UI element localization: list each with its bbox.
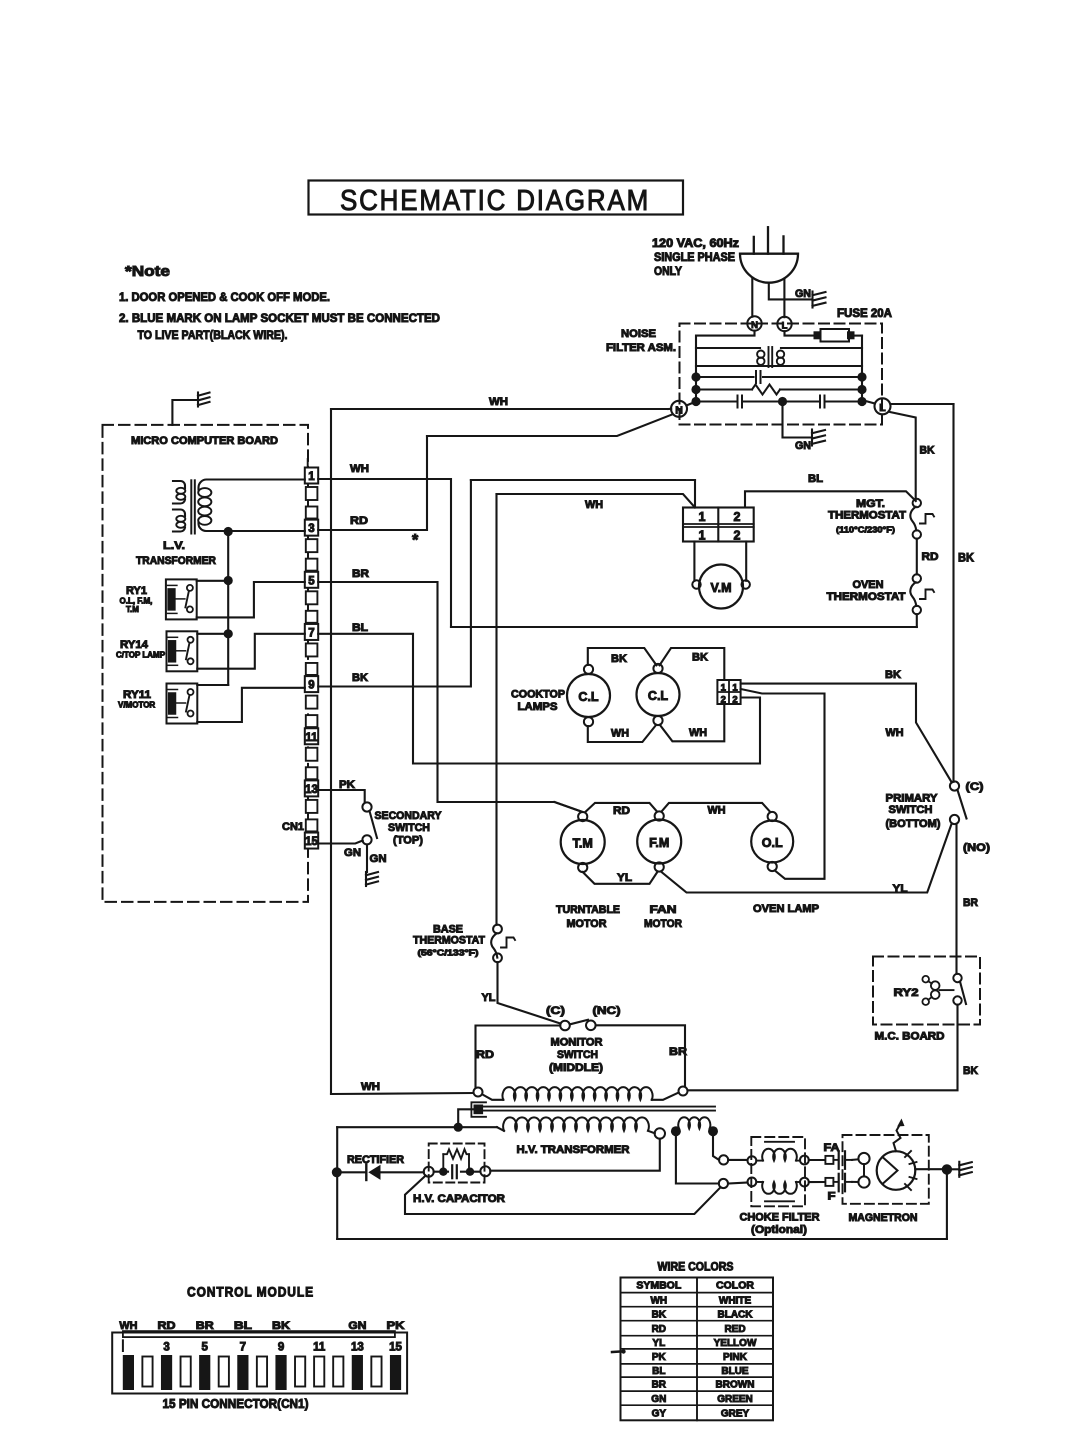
svg-text:1: 1 <box>699 510 706 524</box>
svg-text:BR: BR <box>963 897 978 909</box>
svg-text:15 PIN CONNECTOR(CN1): 15 PIN CONNECTOR(CN1) <box>163 1397 309 1411</box>
choke coil top <box>756 1160 763 1162</box>
svg-text:3: 3 <box>163 1342 169 1354</box>
HV transformer core <box>483 1106 715 1108</box>
wire L to BK drop <box>889 412 916 500</box>
svg-text:THERMOSTAT: THERMOSTAT <box>413 935 485 947</box>
svg-text:FA: FA <box>824 1142 840 1154</box>
svg-text:(NO): (NO) <box>963 842 990 854</box>
terminal L top <box>777 317 791 331</box>
HV transformer filament <box>671 1126 681 1136</box>
wire filament left to F <box>676 1136 719 1184</box>
svg-text:2: 2 <box>734 529 741 543</box>
monitor switch blade <box>571 1020 589 1024</box>
left return box <box>336 1127 338 1239</box>
svg-text:RY14: RY14 <box>120 639 149 651</box>
motor F.M <box>637 820 681 864</box>
svg-text:1: 1 <box>308 471 315 483</box>
feedthrough capacitor F <box>833 1181 837 1183</box>
wire WH pin1 long <box>451 626 917 628</box>
wire WH to base thermostat <box>495 494 497 925</box>
choke filter right bottom terminal <box>800 1178 809 1187</box>
wire FM-OL top <box>662 803 771 812</box>
wire YL FM to primary switch <box>662 824 952 893</box>
svg-text:WH: WH <box>361 1081 380 1093</box>
svg-text:9: 9 <box>308 680 314 692</box>
svg-text:T.M: T.M <box>573 837 593 851</box>
svg-text:MOTOR: MOTOR <box>644 918 682 930</box>
svg-text:PRIMARY: PRIMARY <box>886 793 939 805</box>
svg-text:FILTER ASM.: FILTER ASM. <box>606 342 676 354</box>
wire BK block to primary switch <box>741 684 952 783</box>
wire BK lamps top <box>588 648 657 665</box>
svg-text:1: 1 <box>699 529 706 543</box>
svg-text:BK: BK <box>652 1309 667 1320</box>
svg-text:WHITE: WHITE <box>719 1295 752 1306</box>
svg-text:1: 1 <box>721 683 727 694</box>
choke filter left top terminal <box>748 1156 757 1165</box>
svg-text:PK: PK <box>652 1352 667 1363</box>
wire to chassis <box>952 1168 959 1170</box>
svg-text:(56°C/133°F): (56°C/133°F) <box>418 948 479 958</box>
svg-text:F.M: F.M <box>649 836 669 850</box>
ground magnetron <box>958 1162 960 1177</box>
relay RY2 contacts <box>953 974 961 982</box>
svg-text:GN: GN <box>344 847 361 859</box>
svg-text:RY11: RY11 <box>123 689 151 701</box>
svg-text:YL: YL <box>482 992 496 1004</box>
svg-text:TO LIVE PART(BLACK WIRE).: TO LIVE PART(BLACK WIRE). <box>138 328 288 342</box>
node T1 bottom junction <box>224 527 233 536</box>
primary switch NO contact <box>950 815 959 824</box>
terminal N top <box>747 316 761 330</box>
choke core <box>768 347 770 367</box>
svg-text:GN: GN <box>795 288 811 300</box>
svg-text:BLUE: BLUE <box>721 1366 749 1377</box>
svg-text:BR: BR <box>352 568 369 580</box>
svg-text:*Note: *Note <box>125 264 170 280</box>
svg-text:15: 15 <box>389 1342 402 1354</box>
terminal L bottom <box>875 398 891 414</box>
svg-text:BK: BK <box>963 1065 978 1077</box>
svg-text:C.L: C.L <box>578 690 599 704</box>
svg-text:RD: RD <box>350 515 368 527</box>
svg-text:COOKTOP: COOKTOP <box>511 689 565 701</box>
svg-text:MGT.: MGT. <box>856 498 885 510</box>
wire WH lamps bottom right <box>660 704 725 741</box>
bleeder resistor row <box>696 388 752 390</box>
wire WH bus to monitor <box>331 1093 473 1094</box>
svg-text:THERMOSTAT: THERMOSTAT <box>827 591 906 603</box>
svg-text:WH: WH <box>650 1295 667 1306</box>
svg-text:L: L <box>782 321 788 332</box>
svg-text:YELLOW: YELLOW <box>714 1338 757 1349</box>
base thermostat <box>493 925 502 934</box>
svg-text:2: 2 <box>734 510 741 524</box>
svg-text:7: 7 <box>240 1342 246 1354</box>
svg-text:NOISE: NOISE <box>621 328 656 340</box>
monitor switch box <box>476 1026 561 1088</box>
wire TM-FM top <box>586 803 658 812</box>
wire BL to MGT <box>745 491 916 507</box>
svg-text:RY1: RY1 <box>126 585 147 597</box>
lamp C.L right <box>637 673 680 716</box>
transformer T1 core <box>190 480 192 533</box>
svg-text:(C): (C) <box>966 781 984 793</box>
lamp O.L <box>751 821 793 863</box>
svg-text:BROWN: BROWN <box>716 1380 755 1391</box>
svg-text:WH: WH <box>350 463 369 475</box>
svg-text:BK: BK <box>352 672 368 684</box>
terminal F <box>825 1178 833 1186</box>
svg-text:WH: WH <box>119 1320 137 1332</box>
wire N bottom to bus <box>687 402 696 406</box>
svg-text:PINK: PINK <box>723 1352 748 1363</box>
HV secondary terminal <box>655 1128 665 1138</box>
relay RY2 coil <box>922 976 929 983</box>
wire choke to FA <box>809 1159 825 1161</box>
svg-text:GN: GN <box>370 853 387 865</box>
svg-text:2: 2 <box>732 695 737 706</box>
wire FA inner to choke <box>728 1159 747 1161</box>
svg-text:COLOR: COLOR <box>716 1280 754 1292</box>
wire RY14 top <box>197 633 228 635</box>
svg-text:BL: BL <box>234 1320 252 1332</box>
wire WH lamps bottom <box>588 725 656 742</box>
control module pins <box>123 1356 133 1390</box>
wire filament right to FA <box>713 1136 719 1160</box>
wire VM block to motor right <box>745 542 747 581</box>
wire choke bottom <box>696 365 862 367</box>
wire BK lamps top right <box>660 648 725 680</box>
svg-text:RD: RD <box>158 1320 176 1332</box>
control module top bar <box>123 1331 395 1337</box>
svg-text:(MIDDLE): (MIDDLE) <box>549 1062 603 1074</box>
ground secondary switch <box>365 872 367 886</box>
svg-text:T.M: T.M <box>126 605 139 614</box>
relay RY14 <box>167 631 198 671</box>
control module connector outline <box>112 1333 407 1394</box>
wire magnetron anode <box>915 1168 942 1170</box>
svg-text:7: 7 <box>308 627 314 639</box>
svg-text:O.L: O.L <box>762 836 783 850</box>
monitor switch C contact <box>560 1021 570 1031</box>
left bus WH <box>330 409 332 1094</box>
svg-text:BK: BK <box>692 652 708 664</box>
primary switch blade <box>958 790 967 819</box>
wire RD thermostats <box>916 539 918 575</box>
svg-text:9: 9 <box>278 1342 284 1354</box>
svg-text:MAGNETRON: MAGNETRON <box>849 1212 918 1224</box>
wire RY14 to pin7 <box>197 634 304 669</box>
svg-text:(110°C/230°F): (110°C/230°F) <box>836 525 895 535</box>
wire RY1 to pin5 <box>197 582 305 617</box>
svg-text:RD: RD <box>613 805 630 817</box>
svg-text:TRANSFORMER: TRANSFORMER <box>136 555 216 567</box>
svg-text:PK: PK <box>339 779 355 791</box>
svg-text:BL: BL <box>652 1366 665 1377</box>
transformer T1 primary <box>173 481 185 488</box>
svg-text:GN: GN <box>651 1394 666 1405</box>
primary switch C contact <box>950 781 959 790</box>
monitor switch right terminal <box>679 1087 688 1096</box>
wire WH to VM block <box>497 494 696 508</box>
choke L1 windings <box>757 351 764 358</box>
wire L to fuse <box>785 331 815 335</box>
magnetron filament <box>852 1158 858 1161</box>
svg-text:RD: RD <box>652 1324 666 1335</box>
svg-text:RD: RD <box>922 551 939 563</box>
transformer T1 secondary <box>199 480 305 490</box>
wire N to bus <box>696 331 755 402</box>
svg-text:YL: YL <box>617 872 632 884</box>
HV transformer secondary line <box>337 1126 497 1128</box>
wire BR pin5 <box>318 582 582 812</box>
svg-text:SCHEMATIC DIAGRAM: SCHEMATIC DIAGRAM <box>340 185 650 217</box>
svg-text:SECONDARY: SECONDARY <box>375 810 443 822</box>
noise filter box <box>680 324 883 425</box>
wire bus to choke left <box>696 347 760 349</box>
wire YL base to monitor <box>498 962 561 1023</box>
terminal FA <box>825 1156 833 1164</box>
wire Y-cap to ground <box>783 402 811 438</box>
svg-text:RED: RED <box>724 1324 745 1335</box>
svg-text:BR: BR <box>669 1046 687 1058</box>
svg-text:RD: RD <box>476 1049 494 1061</box>
choke filter left bottom terminal <box>748 1178 757 1187</box>
svg-text:120 VAC, 60Hz: 120 VAC, 60Hz <box>652 238 739 250</box>
MGT thermostat <box>913 499 921 507</box>
terminal N bottom <box>671 401 687 417</box>
wire WH main <box>331 408 668 410</box>
title box <box>309 181 684 215</box>
wire RY11 to pin9 <box>197 688 304 722</box>
svg-text:GREY: GREY <box>721 1408 750 1419</box>
right bus filter <box>861 348 863 402</box>
svg-text:WIRE COLORS: WIRE COLORS <box>658 1262 734 1274</box>
stray mark <box>612 1350 621 1353</box>
svg-text:2: 2 <box>721 695 726 706</box>
svg-text:WH: WH <box>708 805 726 817</box>
svg-text:15: 15 <box>305 836 318 848</box>
wire oven thermostat down <box>916 614 918 627</box>
svg-text:13: 13 <box>351 1342 364 1354</box>
svg-text:GN: GN <box>795 440 811 452</box>
rectifier D1 <box>342 1171 365 1173</box>
wire GN pin15 <box>318 841 363 844</box>
wire cap to F terminal <box>405 1176 721 1214</box>
monitor switch NC contact <box>586 1021 596 1031</box>
svg-text:1: 1 <box>732 683 738 694</box>
svg-text:(NC): (NC) <box>593 1005 621 1017</box>
feedthrough capacitor FA <box>833 1159 837 1161</box>
svg-text:WH: WH <box>689 727 707 739</box>
control module pin numbers <box>122 1340 124 1351</box>
secondary switch bottom contact <box>362 835 371 844</box>
choke filter box <box>751 1137 805 1206</box>
svg-text:5: 5 <box>202 1342 209 1354</box>
wire BL pin7 <box>318 634 760 764</box>
relay RY11 <box>167 684 198 724</box>
wire L bottom to bus <box>862 400 875 404</box>
svg-text:BR: BR <box>652 1380 667 1391</box>
HV capacitor left terminal <box>424 1167 434 1177</box>
wire magnetron return <box>946 1175 948 1239</box>
wire choke to F <box>809 1181 825 1183</box>
svg-text:SWITCH: SWITCH <box>557 1049 598 1061</box>
wire to VM block left <box>471 479 695 481</box>
svg-text:2. BLUE MARK ON LAMP SOCKET MU: 2. BLUE MARK ON LAMP SOCKET MUST BE CONN… <box>119 311 440 325</box>
secondary switch blade <box>370 811 378 838</box>
svg-text:WH: WH <box>585 499 603 511</box>
svg-text:WH: WH <box>611 728 629 740</box>
svg-text:SWITCH: SWITCH <box>889 804 933 816</box>
wire RD to N <box>427 414 673 436</box>
svg-text:CONTROL MODULE: CONTROL MODULE <box>187 1285 314 1300</box>
ground filter <box>811 430 813 446</box>
svg-text:F: F <box>828 1191 836 1203</box>
wire YL TM-FM bottom <box>583 872 657 884</box>
right bus BK <box>952 404 954 782</box>
HV transformer primary <box>483 1095 504 1100</box>
svg-text:BK: BK <box>958 553 975 565</box>
wire plug L <box>783 279 785 318</box>
svg-text:V.M: V.M <box>710 581 731 595</box>
svg-text:OVEN: OVEN <box>853 579 884 591</box>
svg-text:CHOKE FILTER: CHOKE FILTER <box>740 1212 820 1224</box>
svg-text:YL: YL <box>893 883 908 895</box>
svg-text:H.V. CAPACITOR: H.V. CAPACITOR <box>413 1193 505 1205</box>
node magnetron ground <box>942 1164 952 1174</box>
wire RY11 top <box>197 684 228 686</box>
terminal F inner <box>719 1179 728 1188</box>
capacitor C1 <box>434 1171 448 1173</box>
relay RY1 <box>166 579 197 619</box>
power plug <box>740 254 798 283</box>
magnetron box <box>843 1135 929 1204</box>
svg-text:5: 5 <box>308 575 315 587</box>
svg-text:RY2: RY2 <box>894 987 919 999</box>
svg-text:THERMOSTAT: THERMOSTAT <box>828 510 906 522</box>
secondary switch top contact <box>362 802 371 811</box>
svg-text:MOTOR: MOTOR <box>567 918 607 930</box>
wire L to right bus <box>891 403 954 405</box>
svg-text:LAMPS: LAMPS <box>518 701 558 713</box>
svg-text:11: 11 <box>313 1342 326 1354</box>
svg-text:C.L: C.L <box>648 689 669 703</box>
ground MCB <box>197 393 199 407</box>
svg-text:*: * <box>412 532 419 549</box>
svg-text:WH: WH <box>489 396 508 408</box>
relay bus vertical <box>227 532 229 686</box>
svg-text:BL: BL <box>808 473 823 485</box>
svg-text:L: L <box>879 402 886 414</box>
wire plug N <box>751 278 753 317</box>
svg-text:C/TOP LAMP: C/TOP LAMP <box>116 651 166 660</box>
svg-text:13: 13 <box>305 784 318 796</box>
svg-text:1. DOOR OPENED & COOK OFF MODE: 1. DOOR OPENED & COOK OFF MODE. <box>119 290 330 304</box>
cooktop connector block <box>717 680 740 704</box>
wire core ground <box>458 1109 474 1127</box>
svg-text:BK: BK <box>920 445 935 457</box>
terminal FA inner <box>719 1155 728 1164</box>
wire RD motors top <box>555 802 583 812</box>
Y-capacitor row <box>696 400 737 402</box>
svg-text:3: 3 <box>308 523 314 535</box>
wire BR to RY2 <box>955 824 957 974</box>
svg-text:SWITCH: SWITCH <box>388 822 430 834</box>
svg-text:RECTIFIER: RECTIFIER <box>347 1154 404 1166</box>
connector CN1 <box>305 468 318 484</box>
magnetron V1 <box>877 1151 916 1190</box>
svg-text:ONLY: ONLY <box>654 266 682 278</box>
HV transformer core bracket <box>471 1102 486 1117</box>
svg-text:BL: BL <box>352 622 368 634</box>
MC board box <box>873 957 980 1025</box>
svg-text:(Optional): (Optional) <box>751 1224 807 1236</box>
svg-text:(TOP): (TOP) <box>393 835 423 847</box>
motor V.M <box>699 565 743 609</box>
svg-text:M.C. BOARD: M.C. BOARD <box>875 1031 945 1043</box>
svg-text:GREEN: GREEN <box>717 1394 753 1405</box>
svg-text:H.V. TRANSFORMER: H.V. TRANSFORMER <box>517 1144 630 1156</box>
svg-text:FAN: FAN <box>650 904 677 916</box>
wire GN switch to ground <box>366 845 368 873</box>
svg-text:SYMBOL: SYMBOL <box>636 1280 682 1292</box>
svg-text:WH: WH <box>886 727 904 739</box>
ground MCB wire <box>172 400 196 425</box>
svg-text:BK: BK <box>611 653 627 665</box>
svg-text:N: N <box>751 320 758 331</box>
svg-text:MONITOR: MONITOR <box>551 1037 603 1049</box>
wire VM block to motor left <box>693 542 695 581</box>
fuse F1 <box>814 332 821 339</box>
wire PK pin13 <box>318 790 365 803</box>
oven thermostat <box>913 574 921 582</box>
svg-text:(BOTTOM): (BOTTOM) <box>886 818 941 830</box>
wire BK pin9 <box>318 480 695 687</box>
svg-text:N: N <box>675 404 683 416</box>
wire F inner to choke <box>728 1183 748 1184</box>
svg-text:BR: BR <box>196 1320 214 1332</box>
bleeder resistor R1 <box>442 1154 444 1172</box>
micro computer board box <box>103 425 309 902</box>
svg-text:BK: BK <box>885 669 901 681</box>
wire plug GN <box>769 283 811 300</box>
magnetron antenna <box>894 1123 901 1151</box>
ground plug <box>811 292 813 308</box>
svg-text:TURNTABLE: TURNTABLE <box>556 904 620 916</box>
svg-text:V/MOTOR: V/MOTOR <box>118 701 155 710</box>
choke filter right top terminal <box>800 1156 809 1165</box>
wire RY2 to monitor switch <box>688 1005 958 1091</box>
svg-text:(C): (C) <box>546 1005 565 1017</box>
svg-text:BLACK: BLACK <box>718 1309 754 1320</box>
VM terminal block <box>683 508 754 542</box>
HV transformer secondary <box>503 1117 649 1130</box>
lamp C.L left <box>567 674 610 717</box>
svg-text:GN: GN <box>348 1320 366 1332</box>
wire secondary to cap <box>490 1139 660 1171</box>
monitor switch left terminal <box>474 1088 483 1097</box>
svg-text:FUSE 20A: FUSE 20A <box>837 308 892 320</box>
svg-text:MICRO COMPUTER BOARD: MICRO COMPUTER BOARD <box>131 435 278 447</box>
wire RY1 top <box>197 580 229 582</box>
svg-text:PK: PK <box>387 1320 405 1332</box>
svg-text:YL: YL <box>652 1338 665 1349</box>
svg-text:SINGLE PHASE: SINGLE PHASE <box>654 252 735 264</box>
svg-text:11: 11 <box>305 732 318 744</box>
